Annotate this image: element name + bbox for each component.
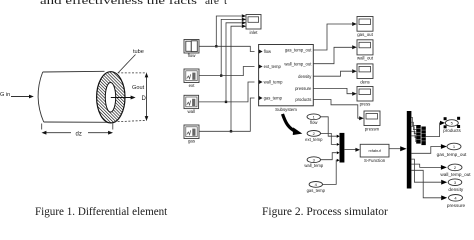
inport 3 wall_temp [307, 157, 320, 163]
scope inlet [242, 14, 261, 29]
svg-text:gas: gas [188, 139, 196, 144]
svg-text:gas_temp_out: gas_temp_out [437, 152, 467, 157]
dashed extension line top [114, 72, 147, 74]
wire Gout arrow [111, 97, 132, 99]
svg-text:S-Function: S-Function [364, 158, 386, 163]
subsystem input arrows [259, 50, 263, 54]
wire inport3 to mux [321, 153, 337, 160]
wire S-Function to demux [389, 148, 401, 150]
wire flow to subsystem [199, 46, 255, 51]
svg-text:flow: flow [310, 120, 318, 125]
block gas (source) [184, 125, 199, 139]
wire selector to outport products [426, 123, 441, 137]
scope dens [357, 64, 373, 79]
wire G in arrow [11, 96, 31, 98]
svg-text:flow: flow [264, 49, 272, 54]
svg-text:ext_temp: ext_temp [264, 64, 282, 69]
svg-text:ext_temp: ext_temp [305, 137, 323, 142]
inport 4 gas_temp [309, 182, 322, 188]
block wall (source) [184, 95, 199, 108]
svg-text:products: products [295, 97, 311, 102]
wire riser wall to inlet port3 [226, 23, 242, 102]
hatched disk outer ellipse [97, 72, 125, 123]
outport 4 pressure [449, 195, 463, 202]
inport 1 flow [307, 114, 320, 120]
wire subsystem to wall_out scope [313, 47, 352, 63]
svg-text:pressure: pressure [295, 86, 312, 91]
wire subsystem to pressm scope [313, 100, 359, 119]
wire subsystem to dens scope [313, 71, 352, 76]
S-Function block [360, 144, 389, 157]
svg-text:gas_temp: gas_temp [264, 96, 283, 101]
svg-text:dz: dz [76, 132, 82, 138]
svg-text:are: are [205, 0, 219, 7]
svg-text:t: t [224, 0, 227, 7]
svg-text:Figure 2. Process simulator: Figure 2. Process simulator [262, 206, 388, 218]
wire inport4 to mux [323, 160, 337, 184]
wire riser flow to inlet port1 [216, 16, 242, 46]
svg-text:G in: G in [0, 92, 10, 98]
svg-text:wall_temp_out: wall_temp_out [284, 61, 312, 66]
tube pointer line [118, 55, 135, 73]
svg-text:rxfabuf: rxfabuf [368, 148, 381, 153]
svg-text:wall_out: wall_out [357, 56, 374, 61]
outport 1 gas_temp_out [447, 143, 461, 150]
svg-text:pressure: pressure [447, 203, 466, 208]
wire inport1 to mux [320, 117, 336, 136]
outport 5 products (selected) [445, 120, 458, 127]
subsystem port labels [264, 48, 313, 102]
demux block [407, 111, 412, 189]
svg-text:density: density [298, 74, 312, 79]
svg-text:flow: flow [188, 53, 197, 58]
svg-text:wall: wall [188, 109, 196, 114]
svg-text:gas_temp: gas_temp [307, 188, 326, 193]
wire demux to outport3 [411, 159, 441, 182]
annotation curved arrow [283, 114, 296, 131]
outport 3 density [448, 179, 462, 186]
svg-text:products: products [443, 128, 461, 133]
svg-text:gas_out: gas_out [357, 32, 373, 37]
wire ext to subsystem [199, 67, 255, 76]
svg-text:wall_temp: wall_temp [264, 80, 284, 85]
scope press [357, 87, 373, 102]
junction dots [215, 45, 217, 47]
svg-text:gas_temp_out: gas_temp_out [285, 48, 312, 53]
selector bar 1 [416, 125, 421, 144]
dashed extension line bottom [114, 120, 147, 121]
svg-text:density: density [448, 187, 464, 192]
svg-text:Subsystem: Subsystem [275, 107, 297, 112]
svg-text:and effectiveness the facts: and effectiveness the facts [40, 0, 197, 7]
outport 2 wall_temp_out [448, 164, 462, 171]
scope pressm [364, 111, 380, 126]
scope gas_out [357, 17, 373, 32]
svg-text:Gout: Gout [132, 85, 145, 91]
svg-text:ext: ext [189, 83, 196, 88]
svg-text:Figure 1. Differential element: Figure 1. Differential element [35, 206, 168, 218]
svg-text:dens: dens [360, 79, 370, 84]
demux stub wires to selector bars [411, 118, 416, 126]
wire subsystem to press scope [313, 88, 352, 93]
svg-text:wall_temp_out: wall_temp_out [440, 172, 471, 177]
wire subsystem to gas_out scope [313, 24, 352, 50]
wire inport2 to mux [321, 133, 337, 144]
wire wall to subsystem [199, 82, 255, 102]
dimension line D [146, 74, 148, 120]
hatched disk inner ellipse [105, 83, 115, 113]
tick marks dz [41, 124, 43, 130]
svg-text:D: D [142, 96, 147, 102]
cylinder top line [43, 70, 105, 73]
cylinder left end arc [38, 72, 44, 122]
inport 2 ext_temp [307, 131, 320, 137]
mux block [340, 133, 345, 163]
wire demux to outport4 [411, 170, 441, 198]
wire demux to outport2 [411, 164, 441, 167]
wire riser ext to inlet port2 [221, 19, 242, 75]
svg-text:wall_temp: wall_temp [304, 163, 324, 168]
block flow (source) [184, 40, 199, 54]
subsystem block [259, 45, 314, 106]
svg-text:pressm: pressm [365, 126, 380, 131]
cylinder bottom line [44, 121, 113, 123]
svg-text:press: press [360, 101, 372, 106]
wire riser gas to inlet port4 [231, 26, 242, 131]
wire mux to S-Function [344, 149, 355, 151]
dimension arrows dz [44, 132, 71, 134]
svg-text:inlet: inlet [249, 30, 258, 35]
wire demux to outport1 [411, 147, 441, 154]
selector bar 2 [421, 127, 425, 146]
wire gas to subsystem [199, 98, 255, 131]
block ext (source) [184, 69, 199, 83]
scope wall_out [357, 40, 373, 55]
svg-text:tube: tube [133, 49, 144, 55]
